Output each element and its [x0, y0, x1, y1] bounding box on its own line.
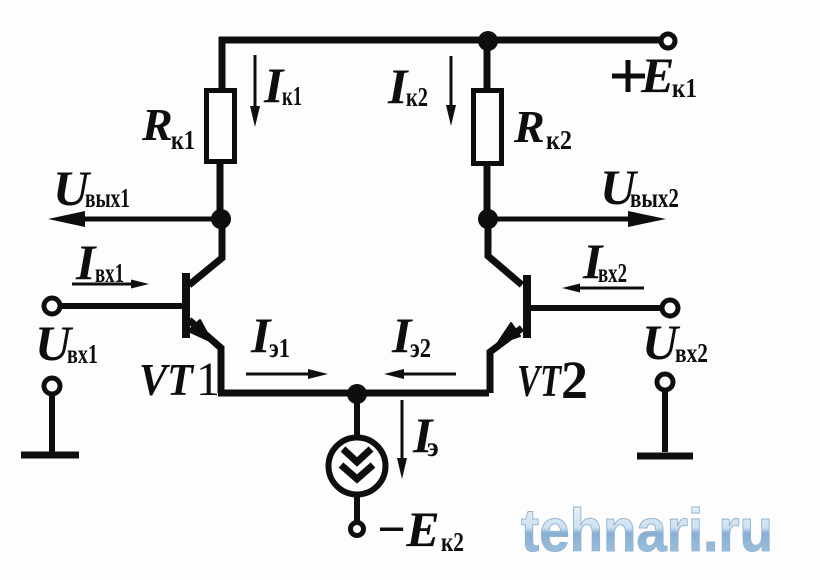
- label Ik2: [387, 58, 428, 114]
- terminal +Ek1: [661, 34, 675, 48]
- resistor R<sub>k2</sub>: [474, 91, 502, 164]
- wire VT2 collector: [488, 219, 522, 285]
- wire Rk2 bottom to output node: [484, 165, 491, 220]
- svg-text:к2: к2: [406, 82, 428, 112]
- wire VT2 base lead: [528, 305, 662, 311]
- arrow Uvyh1 output: [48, 211, 221, 227]
- svg-text:к2: к2: [441, 527, 464, 557]
- label Ivh1: [75, 234, 124, 290]
- label Ie: [412, 407, 439, 463]
- svg-text:э2: э2: [410, 333, 431, 363]
- terminal ground circle right: [657, 374, 673, 390]
- label Uvyh1: [53, 160, 130, 216]
- label Rk1: [141, 99, 195, 155]
- wire top rail: [219, 37, 662, 44]
- ground bar right: [637, 453, 693, 460]
- wire VT2 emitter: [490, 328, 522, 393]
- terminal input 1: [44, 298, 60, 314]
- wire VT1 collector: [189, 219, 222, 285]
- label Uvh2: [642, 314, 708, 370]
- label VT2: [517, 350, 588, 410]
- svg-text:вх1: вх1: [67, 339, 98, 369]
- label Ivh2: [582, 233, 627, 289]
- label VT1: [139, 353, 220, 406]
- arrow Ie1 current: [246, 369, 328, 379]
- svg-text:I: I: [75, 234, 97, 290]
- svg-text:к2: к2: [546, 125, 572, 155]
- transistor VT1 emitter arrowhead: [188, 320, 212, 342]
- current source symbol: [329, 438, 386, 495]
- terminal -Ek2: [351, 523, 364, 536]
- svg-text:э1: э1: [269, 333, 290, 363]
- transistor VT1 base bar: [182, 273, 190, 338]
- node emitter rail junction dot: [347, 384, 367, 404]
- wire emitter rail: [218, 390, 489, 397]
- label Ie1: [250, 307, 290, 363]
- terminal ground circle left: [44, 378, 60, 394]
- svg-text:E: E: [640, 47, 674, 103]
- label Ik1: [263, 57, 302, 113]
- label Ie2: [391, 307, 431, 363]
- wire drop junction to Rk2: [484, 40, 491, 91]
- svg-text:вх2: вх2: [598, 258, 627, 288]
- wire Rk1 bottom to output node: [217, 163, 224, 220]
- svg-text:R: R: [141, 99, 173, 150]
- arrow Ivh2 current: [562, 284, 644, 293]
- label Uvh1: [35, 315, 98, 371]
- transistor VT2 base bar: [523, 275, 531, 338]
- svg-text:2: 2: [561, 350, 588, 410]
- transistor VT2 emitter arrowhead: [497, 323, 520, 344]
- label +Ek1: [612, 47, 697, 103]
- arrow Ik1 current: [250, 55, 260, 127]
- svg-text:1: 1: [196, 353, 220, 406]
- arrow Ivh1 current: [72, 280, 149, 289]
- wire emitter node to current source: [354, 393, 360, 438]
- svg-text:вх1: вх1: [95, 258, 124, 288]
- label -Ek2: [376, 501, 464, 557]
- svg-text:R: R: [513, 101, 545, 152]
- wire ground stem left: [49, 394, 55, 452]
- svg-text:вых1: вых1: [85, 183, 130, 213]
- svg-text:э: э: [427, 432, 439, 462]
- resistor R<sub>k1</sub>: [207, 91, 235, 162]
- svg-text:к1: к1: [672, 73, 697, 103]
- wire VT1 base lead: [60, 303, 184, 309]
- node collector VT1 junction dot: [211, 209, 231, 229]
- label Uvyh2: [600, 159, 679, 215]
- svg-text:VT: VT: [517, 355, 562, 406]
- terminal input 2: [662, 300, 678, 316]
- wire ground stem right: [662, 390, 668, 452]
- svg-text:к1: к1: [282, 81, 302, 111]
- label Rk2: [513, 101, 572, 155]
- arrow Ik2 current: [446, 56, 456, 126]
- svg-text:к1: к1: [171, 125, 195, 155]
- svg-text:−E: −E: [376, 501, 440, 557]
- svg-text:VT: VT: [139, 354, 195, 405]
- svg-text:вх2: вх2: [675, 338, 708, 368]
- ground bar left: [21, 452, 79, 459]
- arrow Ie2 current: [384, 369, 456, 379]
- arrow Ie current: [397, 400, 407, 479]
- wire current source to terminal: [354, 494, 360, 521]
- svg-text:вых2: вых2: [630, 183, 679, 213]
- node top rail junction dot: [478, 31, 498, 51]
- svg-text:tehnari.ru: tehnari.ru: [521, 497, 773, 564]
- node collector VT2 junction dot: [478, 209, 498, 229]
- wire drop to Rk1: [219, 37, 226, 90]
- wire VT1 emitter: [189, 320, 221, 393]
- arrow Uvyh2 output: [488, 211, 666, 227]
